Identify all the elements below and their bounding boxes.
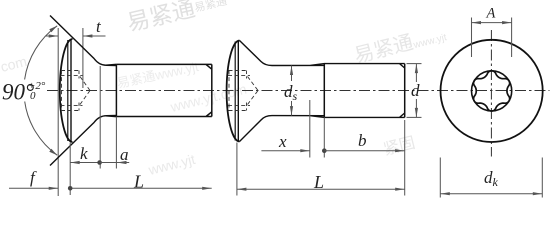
middle view junction double line (234, 42, 236, 141)
svg-text:A: A (486, 6, 496, 22)
dimension a line (100, 162, 130, 164)
svg-text:x: x (278, 132, 287, 151)
dimension b line (324, 150, 404, 152)
dimension L dot left end (68, 186, 73, 191)
angle arc arrowhead top (49, 26, 57, 33)
dimension k line (70, 162, 99, 164)
middle view hidden recess inner walls (228, 74, 250, 76)
dimension k/a shared dot (97, 160, 102, 165)
svg-text:k: k (80, 144, 88, 163)
left view full-thread start line (115, 64, 117, 116)
dimension ds line (291, 66, 293, 82)
end view hexalobular torx recess profile (474, 71, 510, 111)
extension line crown apex plane (t/f datum) (57, 28, 59, 196)
svg-text:d: d (411, 81, 420, 100)
dimension L line left view (70, 187, 212, 189)
centerline vertical of end view (490, 30, 492, 157)
left view lower cone flank with extension and fillet (50, 116, 116, 166)
dimension x line (261, 150, 309, 152)
middle view thread end face (404, 64, 406, 118)
left view hidden recess end wall (78, 71, 80, 79)
dimension dk line (440, 193, 542, 195)
svg-text:0: 0 (30, 90, 36, 102)
end view recess circle A (472, 71, 512, 111)
left view head dome (crown) outline (60, 39, 73, 142)
left view upper cone flank with extension and fillet (50, 16, 116, 66)
dimension f line (9, 187, 58, 189)
svg-text:a: a (120, 145, 129, 164)
left view hidden recess outer wall top (61, 70, 79, 72)
dimension x/b shared dot (322, 148, 327, 153)
left view head crown-cone junction double line (67, 40, 69, 141)
extension line k (cone-shank theoretical) (99, 66, 101, 169)
left view thread outline with chamfered end (116, 64, 211, 116)
extension line t recess depth (82, 28, 84, 88)
centerline screw axis (left+middle views and side view) (47, 90, 550, 92)
extension lines for d (407, 63, 422, 65)
left view hidden recess outer wall bottom (61, 110, 79, 112)
extension line below middle thread end (404, 120, 406, 196)
extension line below thread start (x/b) (323, 117, 325, 157)
left view hidden recess inner wall top (61, 74, 83, 76)
left view hidden recess cone tip (80, 77, 90, 91)
extension lines for A (471, 18, 473, 58)
middle view hidden recess cone tip (248, 77, 259, 91)
dimension t line right part (83, 35, 106, 37)
svg-text:L: L (313, 172, 324, 192)
dimension t line left part (46, 35, 59, 37)
end view head circle dk (441, 40, 543, 142)
dimension L line middle view (237, 188, 405, 190)
middle view hidden recess end wall (246, 71, 248, 79)
left view hidden recess opening edge (61, 71, 63, 111)
extension line x (runout start) (309, 100, 311, 158)
angle arc arrowhead bottom (49, 149, 57, 156)
dimension d line (415, 64, 417, 82)
svg-text:L: L (133, 172, 144, 192)
middle view full-thread start line (323, 64, 325, 118)
middle view lower flank fillet shank and runout (240, 113, 405, 142)
extension line below middle junction (236, 143, 238, 196)
dimension A line (472, 22, 512, 24)
angle dimension arc 90deg (25, 26, 58, 155)
middle view upper flank fillet shank and runout (240, 41, 405, 69)
middle view head dome outline (227, 41, 240, 142)
middle view hidden recess opening edge (228, 71, 230, 111)
extension line below thread start for a (115, 117, 117, 169)
middle view hidden recess outer walls (229, 70, 247, 72)
extension lines for dk (439, 158, 441, 198)
extension line below junction for k/L (69, 143, 71, 196)
left view hidden recess inner wall bottom (61, 105, 83, 107)
svg-text:b: b (358, 131, 367, 150)
